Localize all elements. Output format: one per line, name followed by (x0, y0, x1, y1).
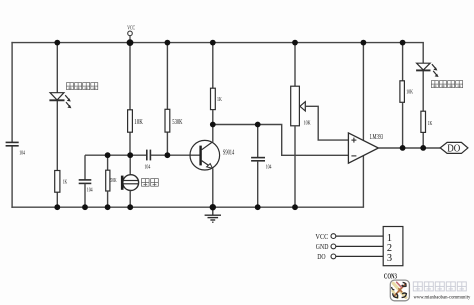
svg-text:GND: GND (316, 242, 329, 251)
svg-text:10K: 10K (134, 119, 143, 126)
svg-text:50K: 50K (110, 177, 117, 184)
junction dots mic node (105, 152, 171, 158)
svg-text:DO: DO (447, 144, 460, 155)
svg-text:3: 3 (387, 253, 392, 264)
wire U1 output (378, 147, 440, 149)
resistor R7 10K (output pull-up) (400, 43, 413, 148)
svg-text:LM393: LM393 (370, 134, 384, 141)
svg-text:CON3: CON3 (384, 273, 397, 281)
resistor R5 50K (106, 155, 117, 207)
wire ground bottom rail (12, 206, 363, 208)
wire RP1 wiper to non-inverting input (305, 106, 348, 140)
ground symbol (205, 207, 221, 222)
pin VCC line (315, 232, 383, 241)
pin GND line (316, 242, 383, 251)
op-amp U1 LM393 supply wires (362, 43, 364, 141)
svg-text:10K: 10K (406, 88, 413, 95)
resistor R6 1K (collector load) (211, 43, 223, 125)
svg-text:104: 104 (87, 186, 93, 193)
svg-text:1K: 1K (63, 178, 68, 185)
junction dots output net (400, 145, 426, 151)
resistor R4 530K branch wires (166, 43, 168, 156)
capacitor C3 104 (collector to ground) (251, 125, 272, 208)
junction dots collector node (210, 122, 261, 128)
svg-text:S9014: S9014 (223, 149, 235, 156)
capacitor C4 104 (coupling) (145, 150, 151, 171)
wire left edge upper (to C1) (11, 43, 13, 142)
label 话筒 pseudo glyphs (142, 179, 159, 187)
junction dots bottom rail (54, 204, 298, 210)
resistor R3 10K branch wires (129, 43, 131, 156)
op-amp U1 LM393 (348, 133, 383, 163)
connector CON3 (383, 227, 403, 266)
VCC power symbol (127, 24, 135, 40)
LED D2 (switch indicator) (416, 63, 439, 77)
svg-text:10K: 10K (304, 120, 311, 127)
svg-text:VCC: VCC (127, 24, 135, 31)
pin DO line (317, 252, 383, 261)
svg-text:www.mianbaoban-community: www.mianbaoban-community (414, 295, 472, 300)
wire VCC top rail (12, 42, 423, 44)
resistor R3 10K (mic pull-up) (128, 110, 143, 132)
svg-text:VCC: VCC (315, 232, 328, 241)
svg-text:1K: 1K (217, 96, 222, 103)
LED D1 (power indicator) (49, 93, 71, 109)
watermark text 面包板社区 pseudo glyphs (413, 282, 466, 291)
LED D2 switch indicator branch wires (422, 43, 424, 148)
resistor R2 1K (LED series) (55, 171, 68, 193)
capacitor C2 104 (mic node to ground) (79, 155, 93, 207)
junction dots top rail (54, 39, 405, 46)
svg-text:104: 104 (19, 149, 25, 156)
svg-text:530K: 530K (172, 119, 182, 126)
wire collector node to inverting input (213, 125, 349, 156)
wire left edge lower (C1 to ground rail) (11, 146, 13, 207)
svg-text:1K: 1K (428, 120, 433, 127)
capacitor C1 104 (left edge) (6, 142, 26, 156)
microphone MK1 话筒 (122, 155, 138, 207)
svg-text:104: 104 (266, 164, 272, 171)
resistor R8 1K (LED2 series) (421, 111, 433, 132)
LED D1 power indicator branch wire (56, 43, 58, 208)
wire Q1 emitter lead (212, 168, 214, 207)
watermark logo (390, 280, 409, 301)
svg-text:104: 104 (145, 163, 151, 170)
node A signal wire (mic node) (85, 154, 200, 156)
svg-text:DO: DO (317, 252, 326, 261)
label 电源指示 (power indicator) pseudo glyphs (67, 83, 98, 90)
resistor R4 530K (base bias) (165, 109, 183, 132)
transistor Q1 S9014 (190, 140, 235, 170)
port DO output tag (440, 142, 468, 154)
potentiometer RP1 10K (291, 43, 311, 208)
label 开关指示 (switch indicator) pseudo glyphs (431, 81, 462, 88)
wire Q1 collector lead (212, 125, 214, 142)
